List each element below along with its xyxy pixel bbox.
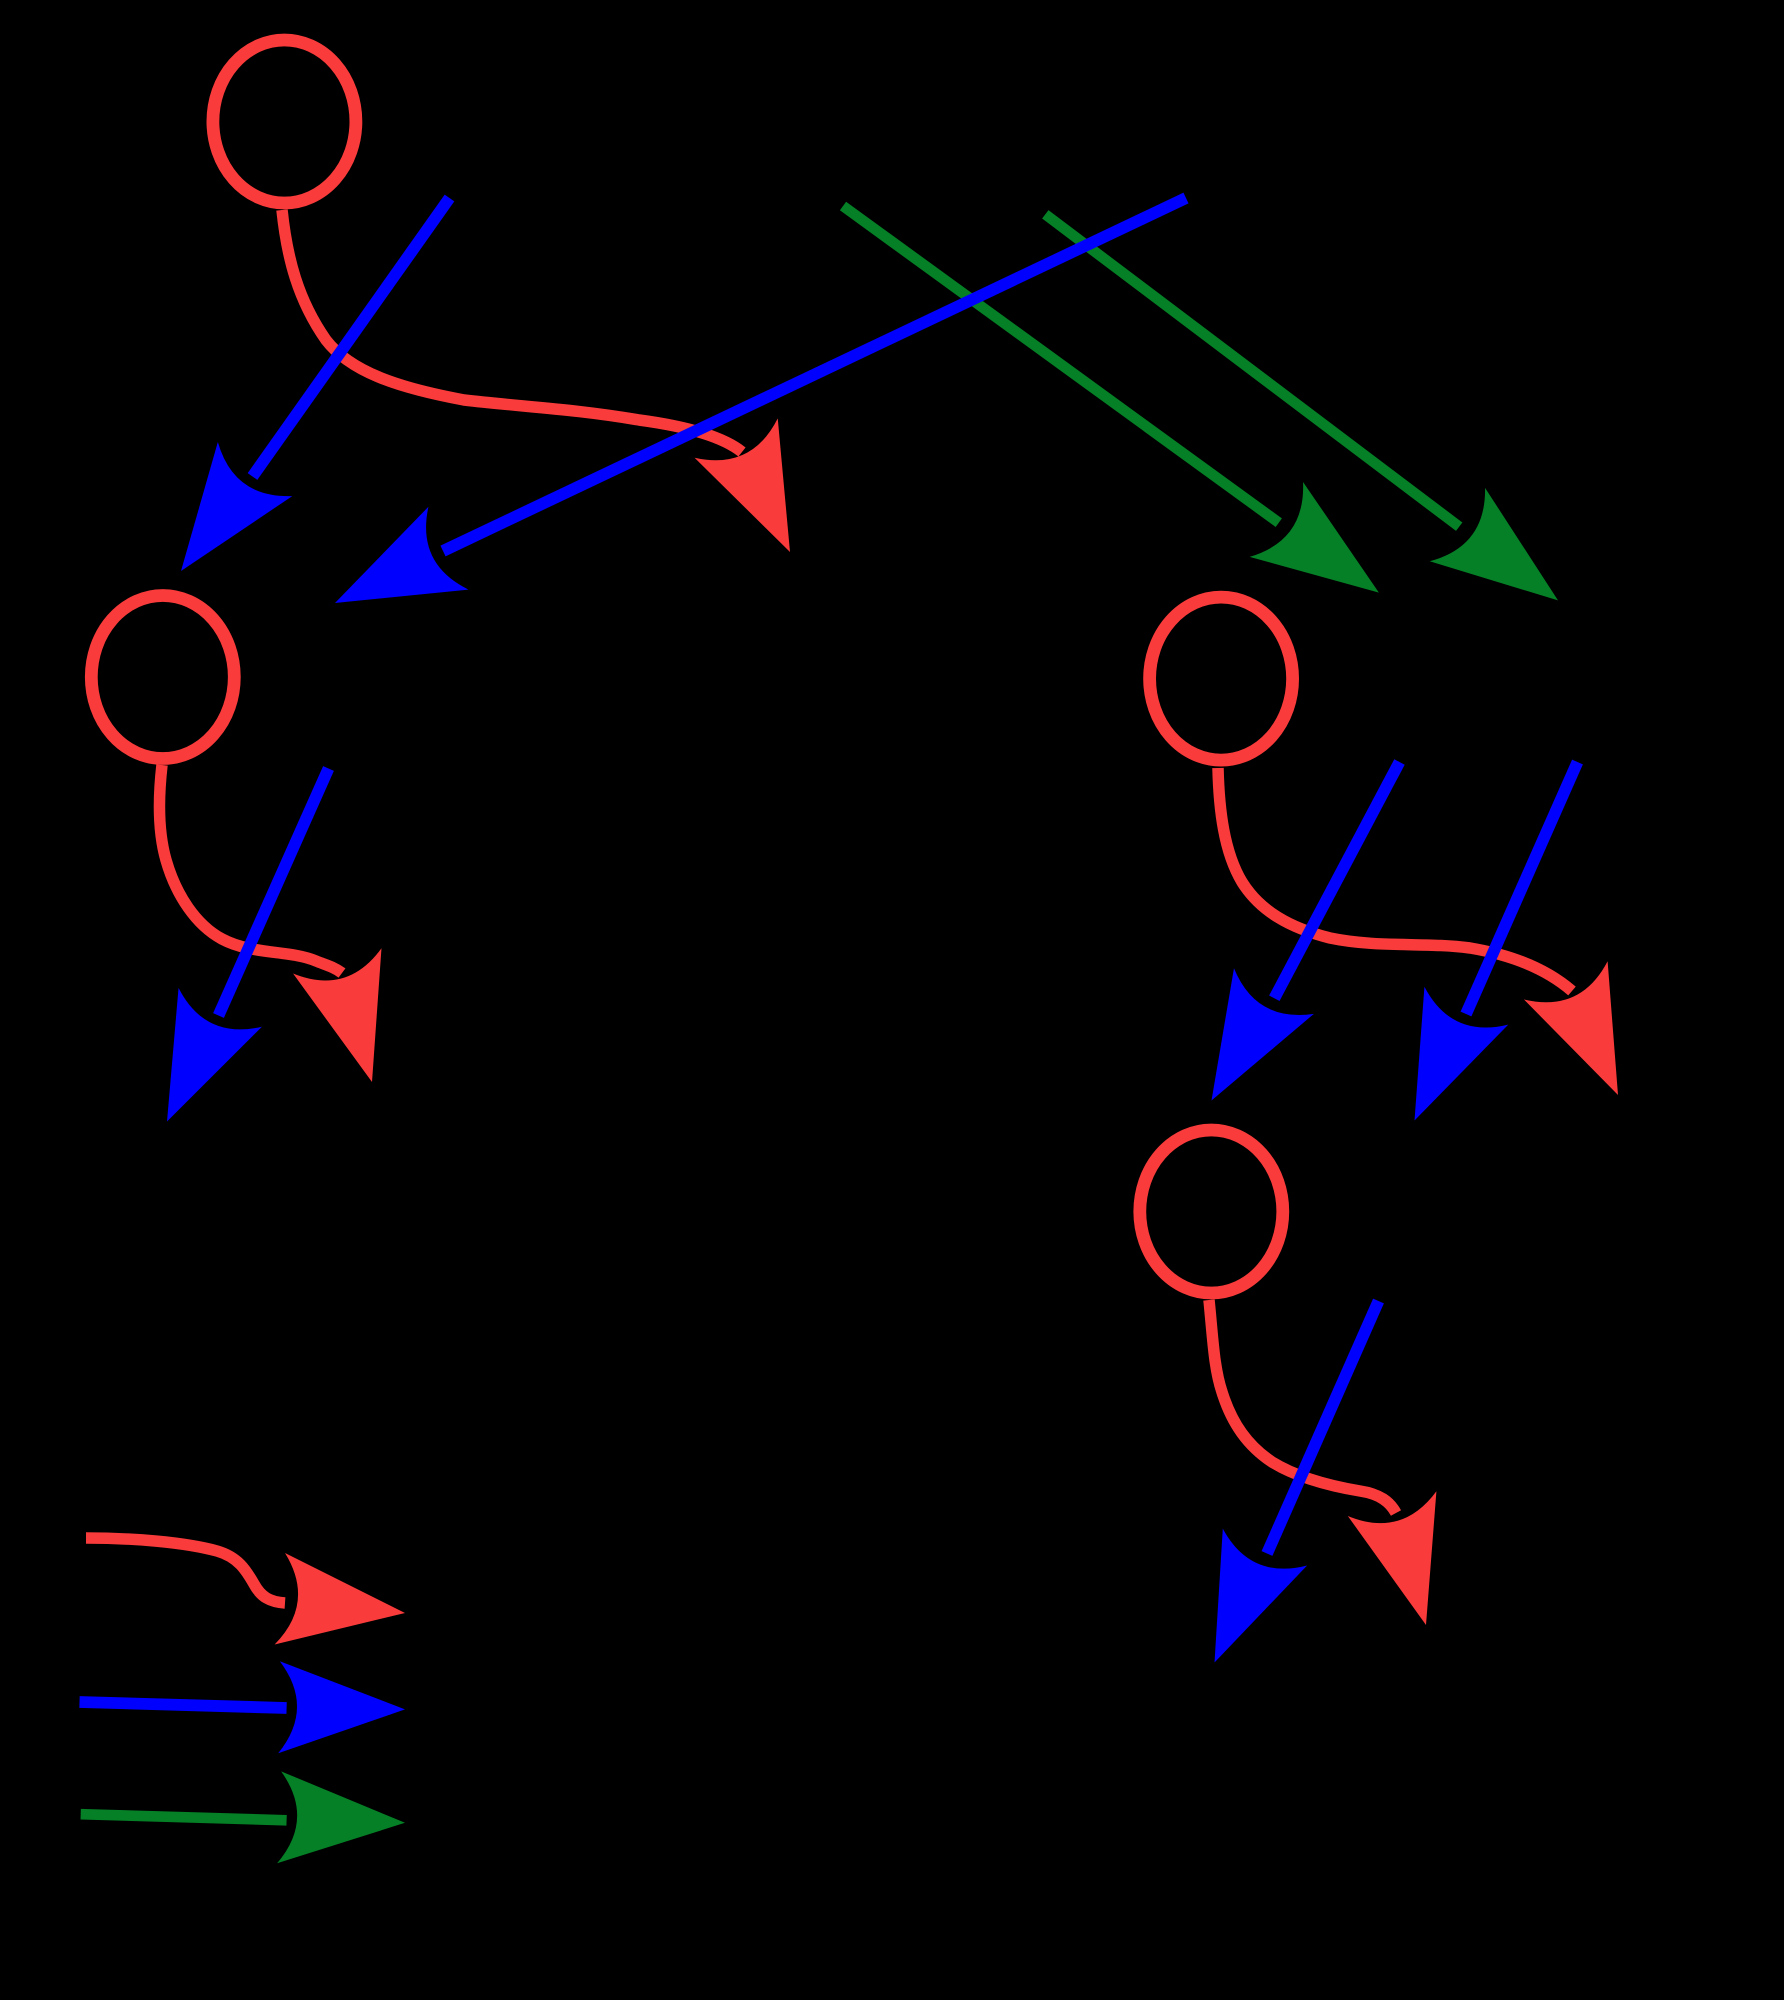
red arrowhead of P3 curve	[1524, 961, 1660, 1114]
player circle P1 (top left)	[213, 40, 356, 203]
blue run line B from P3 (wire)	[1466, 762, 1578, 1014]
green arrowhead 2	[1430, 488, 1586, 637]
red dribble curve from P1	[282, 210, 742, 452]
blue arrowhead 3	[125, 988, 262, 1141]
red arrowhead of P2 curve	[293, 948, 416, 1094]
red dribble curve from P3	[1218, 768, 1572, 991]
player circle P2 (mid left)	[91, 596, 234, 759]
green pass line 1 (wire)	[843, 206, 1279, 523]
legend green arrowhead	[277, 1771, 407, 1868]
green pass line 2 (wire)	[1045, 214, 1459, 526]
red arrowhead of P4 curve	[1348, 1491, 1470, 1637]
green arrowhead 1	[1250, 482, 1406, 630]
legend blue arrowhead	[278, 1661, 406, 1755]
legend blue run line (wire)	[80, 1702, 287, 1708]
red dribble curve from P4	[1209, 1300, 1396, 1513]
red arrowhead of P1 curve	[695, 418, 832, 571]
blue run line from P1 (wire)	[253, 198, 450, 477]
red dribble curve from P2	[159, 765, 342, 973]
legend red arrowhead	[275, 1553, 411, 1659]
blue run line A from P3 (wire)	[1274, 762, 1399, 998]
player circle P3 (mid right)	[1150, 597, 1293, 760]
blue run line from P4 (wire)	[1267, 1301, 1379, 1554]
blue arrowhead 1	[144, 442, 292, 598]
player circle P4 (lower right)	[1140, 1130, 1283, 1293]
legend red dribble curve	[86, 1538, 285, 1603]
blue arrowhead 6	[1172, 1529, 1307, 1681]
blue arrowhead 4	[1172, 968, 1314, 1123]
blue arrowhead 5	[1373, 987, 1509, 1140]
blue run line from P2 (wire)	[219, 769, 329, 1016]
blue arrowhead 2	[315, 507, 468, 645]
long blue run line (wire)	[443, 198, 1186, 551]
legend green pass line (wire)	[81, 1814, 287, 1820]
